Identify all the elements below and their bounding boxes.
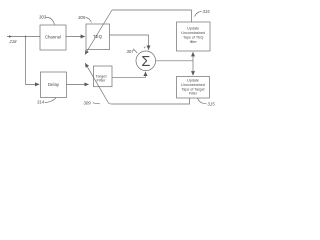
svg-text:315: 315 [203, 9, 211, 14]
summer U sigma circle [136, 51, 156, 71]
svg-text:−: − [143, 74, 146, 80]
svg-text:filter: filter [190, 40, 198, 44]
leader 305 [86, 18, 92, 23]
leader 315 bottom [198, 98, 207, 104]
svg-text:Delay: Delay [48, 82, 60, 87]
wire Target Filter adaptive arrow [85, 63, 108, 103]
svg-text:315: 315 [208, 101, 216, 106]
svg-text:Filter: Filter [189, 92, 198, 96]
svg-text:Update: Update [187, 27, 199, 31]
block update TEQ taps [177, 22, 211, 51]
svg-text:305: 305 [78, 15, 86, 20]
leader 314 [45, 98, 56, 103]
block Channel [40, 25, 66, 50]
wire Channel to TEQ [66, 36, 85, 38]
svg-text:218: 218 [9, 39, 18, 44]
wire TEQ output to summer [110, 35, 149, 50]
block Target Filter [94, 66, 113, 87]
svg-text:Channel: Channel [45, 34, 61, 39]
wire summer output error [156, 60, 193, 62]
block update Target taps [177, 77, 210, 99]
block TEQ [86, 24, 110, 50]
svg-text:303: 303 [39, 15, 47, 20]
svg-text:Filter: Filter [97, 78, 107, 83]
wire Delay to Target Filter [67, 83, 89, 85]
wire branch to Delay [26, 37, 40, 85]
svg-text:Taps of TEQ: Taps of TEQ [183, 36, 204, 40]
wire error to target update [192, 61, 194, 76]
svg-text:Unconstrained: Unconstrained [181, 31, 205, 35]
wire input [7, 36, 40, 38]
svg-text:TEQ: TEQ [93, 34, 103, 39]
svg-text:Σ: Σ [141, 54, 150, 70]
leader 307 [133, 49, 137, 53]
wire error to TEQ update [192, 52, 194, 61]
node input junction [25, 36, 27, 38]
svg-text:314: 314 [37, 100, 45, 105]
wire feedback from target update block [109, 98, 190, 104]
wire Target output to summer [112, 72, 146, 78]
leader 303 [46, 17, 55, 24]
block Delay [41, 72, 67, 98]
wire TEQ adaptive arrow [85, 10, 112, 55]
svg-text:307: 307 [127, 49, 135, 54]
wire feedback from TEQ update block [112, 10, 192, 22]
leader 309 [93, 103, 100, 104]
leader 315 top [195, 12, 202, 17]
svg-text:+: + [144, 45, 147, 50]
svg-text:309: 309 [84, 101, 92, 106]
